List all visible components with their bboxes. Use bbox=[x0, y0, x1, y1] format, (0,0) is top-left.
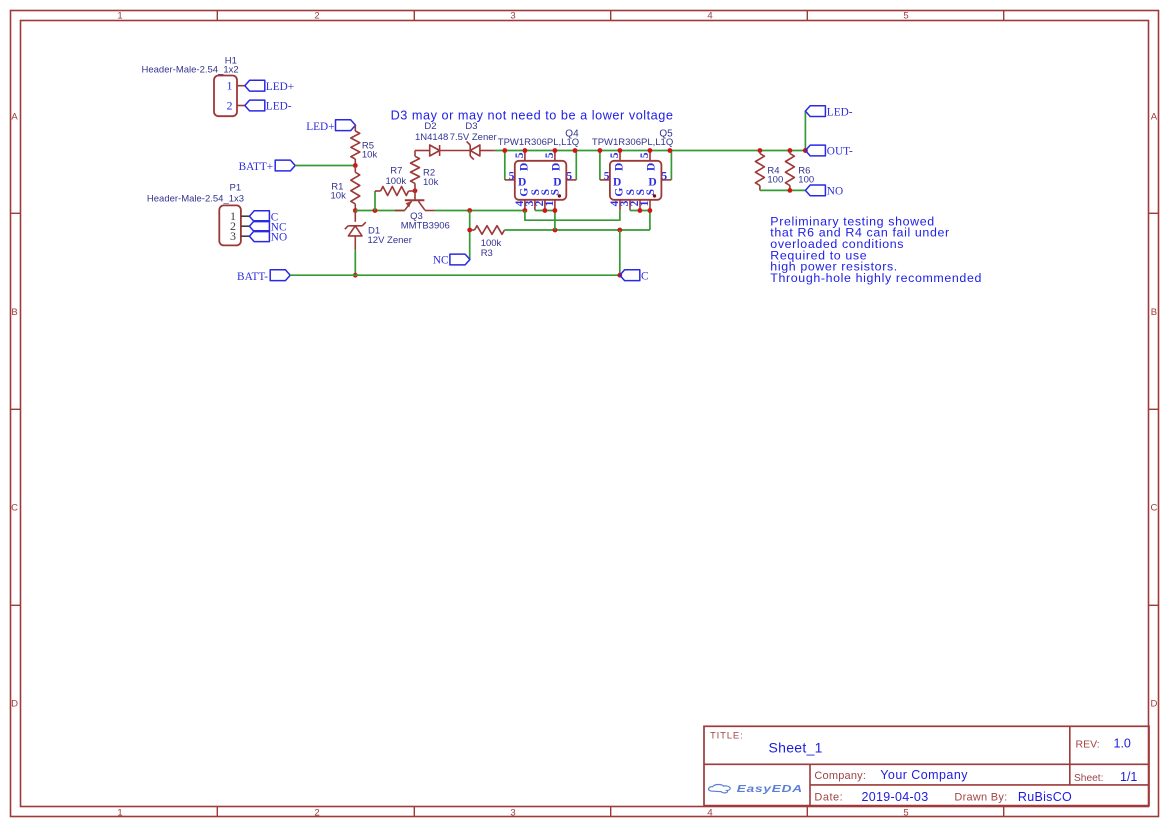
title block bbox=[704, 726, 1149, 805]
svg-text:5: 5 bbox=[661, 171, 667, 183]
net flag NO on P1 pin 3 bbox=[249, 231, 287, 244]
svg-text:5: 5 bbox=[509, 171, 515, 183]
svg-text:Date:: Date: bbox=[814, 792, 843, 804]
svg-text:Q4: Q4 bbox=[565, 128, 579, 139]
MOSFET Q5 TPW1R306PL,L1Q bbox=[592, 128, 673, 210]
resistor R3 100k bbox=[470, 226, 505, 260]
svg-text:1: 1 bbox=[117, 10, 122, 21]
junction Q5 source pin2 bbox=[638, 208, 643, 213]
junction Q5 drain top 2 bbox=[648, 148, 653, 153]
svg-text:5: 5 bbox=[514, 152, 526, 158]
net flag BATT- bbox=[237, 270, 290, 283]
svg-text:2019-04-03: 2019-04-03 bbox=[862, 790, 929, 804]
net flag NO right bbox=[805, 185, 843, 198]
junction Q4 drain top 1 bbox=[523, 148, 528, 153]
svg-text:100: 100 bbox=[767, 175, 783, 186]
svg-text:Sheet_1: Sheet_1 bbox=[769, 740, 823, 756]
connector P1 Header-Male-2.54_1x3 bbox=[147, 183, 244, 246]
svg-text:4: 4 bbox=[707, 807, 712, 818]
pin 2 of P1 bbox=[230, 219, 249, 233]
junction Q5 source pin1 bbox=[648, 208, 653, 213]
svg-text:REV:: REV: bbox=[1076, 738, 1100, 750]
svg-text:R3: R3 bbox=[481, 248, 493, 259]
wire Q4 gate to Q5 gate bbox=[525, 210, 620, 220]
net flag LED+ on H1 pin 1 bbox=[245, 80, 294, 93]
zener diode D3 7.5V bbox=[450, 121, 497, 160]
svg-text:C: C bbox=[11, 503, 18, 514]
wire Q4 source bus bbox=[535, 211, 555, 231]
wire R7 left branch bbox=[374, 191, 376, 211]
wire D1 to BATT- line bbox=[354, 250, 356, 275]
svg-text:D: D bbox=[553, 177, 561, 189]
svg-text:D: D bbox=[11, 698, 18, 709]
svg-text:G: G bbox=[519, 188, 531, 197]
svg-text:Drawn By:: Drawn By: bbox=[954, 792, 1007, 804]
svg-text:G: G bbox=[614, 188, 626, 197]
svg-text:Header-Male-2.54_1x3: Header-Male-2.54_1x3 bbox=[147, 194, 244, 205]
svg-text:D: D bbox=[518, 177, 526, 189]
resistor R7 100k bbox=[375, 166, 415, 196]
svg-text:100: 100 bbox=[798, 175, 814, 186]
net flag C on P1 pin 1 bbox=[249, 211, 278, 224]
svg-text:Q5: Q5 bbox=[659, 128, 673, 139]
wire Q3 to Q4 gate bbox=[435, 210, 525, 212]
svg-text:MMTB3906: MMTB3906 bbox=[401, 221, 450, 232]
junction R6 top bbox=[788, 148, 793, 153]
svg-text:3: 3 bbox=[230, 229, 236, 243]
connector H1 Header-Male-2.54_1x2 bbox=[142, 56, 239, 117]
junction Q4 gate node bbox=[523, 208, 528, 213]
junction D1 on BATT- line bbox=[353, 273, 358, 278]
svg-text:LED+: LED+ bbox=[266, 81, 294, 93]
svg-text:5: 5 bbox=[609, 152, 621, 158]
svg-text:NO: NO bbox=[827, 186, 843, 198]
svg-text:1: 1 bbox=[544, 200, 556, 206]
wire C branch vertical bbox=[619, 230, 621, 275]
wire NC branch vertical bbox=[469, 211, 471, 260]
MOSFET Q4 TPW1R306PL,L1Q bbox=[498, 128, 579, 210]
svg-text:5: 5 bbox=[903, 807, 908, 818]
wire Q5 source bus bbox=[630, 211, 650, 231]
junction Q5 drain pin left bbox=[598, 148, 603, 153]
svg-text:D: D bbox=[614, 163, 626, 171]
resistor R4 100 bbox=[755, 151, 783, 191]
net flag OUT- bbox=[805, 145, 853, 158]
junction BATT+ node bbox=[353, 163, 358, 168]
wire D3 to OUT- (drain line) bbox=[495, 150, 806, 152]
svg-text:3: 3 bbox=[510, 807, 515, 818]
svg-text:100k: 100k bbox=[386, 176, 407, 187]
diode D2 1N4148 bbox=[415, 121, 470, 156]
svg-text:10k: 10k bbox=[423, 177, 439, 188]
resistor R6 100 bbox=[785, 151, 814, 191]
svg-text:EasyEDA: EasyEDA bbox=[737, 783, 803, 795]
junction Q4 drain pin right bbox=[573, 148, 578, 153]
svg-text:Sheet:: Sheet: bbox=[1074, 773, 1103, 784]
svg-text:TITLE:: TITLE: bbox=[710, 730, 744, 741]
zener diode D1 12V bbox=[345, 211, 412, 251]
svg-text:D: D bbox=[1150, 698, 1157, 709]
wire LED- branch bbox=[804, 111, 806, 150]
svg-text:10k: 10k bbox=[331, 190, 347, 201]
net flag NC bbox=[433, 254, 470, 266]
svg-text:Company:: Company: bbox=[814, 770, 866, 782]
resistor R2 10k bbox=[411, 151, 439, 191]
svg-text:LED-: LED- bbox=[827, 106, 853, 118]
junction C branch on R3 line bbox=[617, 228, 622, 233]
pin 2 of H1 bbox=[227, 98, 245, 112]
svg-text:B: B bbox=[11, 307, 17, 318]
pin 1 of P1 bbox=[230, 209, 249, 223]
junction C branch bottom bbox=[617, 273, 622, 278]
svg-text:A: A bbox=[11, 112, 18, 123]
junction R4 top bbox=[758, 148, 763, 153]
junction NC branch node bbox=[467, 208, 472, 213]
svg-text:3: 3 bbox=[510, 10, 515, 21]
svg-text:B: B bbox=[1151, 307, 1157, 318]
svg-text:7.5V Zener: 7.5V Zener bbox=[450, 132, 497, 143]
svg-text:Header-Male-2.54_1x2: Header-Male-2.54_1x2 bbox=[142, 65, 239, 76]
svg-text:1.0: 1.0 bbox=[1114, 737, 1131, 751]
junction Q5 drain top 1 bbox=[618, 148, 623, 153]
svg-text:D: D bbox=[519, 163, 531, 171]
svg-text:10k: 10k bbox=[362, 149, 378, 160]
svg-text:C: C bbox=[641, 271, 649, 283]
svg-text:D: D bbox=[648, 177, 656, 189]
net flag NC on P1 pin 2 bbox=[249, 221, 286, 234]
svg-text:D: D bbox=[646, 163, 658, 171]
svg-text:BATT+: BATT+ bbox=[239, 161, 274, 173]
net flag BATT+ bbox=[239, 160, 296, 173]
svg-text:4: 4 bbox=[707, 10, 712, 21]
note D3 voltage comment bbox=[391, 109, 674, 123]
net flag LED- right bbox=[805, 106, 852, 119]
svg-text:Your Company: Your Company bbox=[880, 768, 968, 782]
svg-text:D: D bbox=[551, 163, 563, 171]
junction Q3 base node bbox=[413, 188, 418, 193]
pin 1 of H1 bbox=[227, 79, 245, 93]
transistor Q3 MMTB3906 PNP bbox=[395, 191, 450, 232]
net flag LED+ above R5 bbox=[306, 120, 355, 133]
svg-text:1: 1 bbox=[117, 807, 122, 818]
svg-text:Through-hole highly recommende: Through-hole highly recommended bbox=[770, 271, 982, 285]
svg-text:5: 5 bbox=[544, 152, 556, 158]
junction Q5 drain pin right bbox=[668, 148, 673, 153]
svg-text:5: 5 bbox=[639, 152, 651, 158]
svg-text:A: A bbox=[1151, 112, 1158, 123]
svg-text:1: 1 bbox=[227, 79, 233, 93]
junction R1 bottom node bbox=[353, 208, 358, 213]
wire R1 node to Q3 bbox=[355, 210, 404, 212]
svg-text:NC: NC bbox=[433, 255, 449, 267]
svg-text:5: 5 bbox=[566, 171, 572, 183]
svg-text:2: 2 bbox=[314, 807, 319, 818]
svg-text:2: 2 bbox=[314, 10, 319, 21]
junction R7 branch node bbox=[373, 208, 378, 213]
junction Q4 source on R3 line bbox=[553, 228, 558, 233]
svg-text:NO: NO bbox=[271, 231, 287, 243]
svg-text:5: 5 bbox=[604, 171, 610, 183]
svg-text:P1: P1 bbox=[230, 183, 242, 194]
wire BATT- line bbox=[290, 274, 620, 276]
svg-text:BATT-: BATT- bbox=[237, 271, 268, 283]
junction Q4 source pin1 bbox=[553, 208, 558, 213]
svg-text:LED-: LED- bbox=[266, 101, 292, 113]
svg-text:1/1: 1/1 bbox=[1120, 770, 1137, 784]
wire LED+ flag to R5 bbox=[354, 125, 356, 131]
svg-text:1N4148: 1N4148 bbox=[415, 132, 448, 143]
svg-text:OUT-: OUT- bbox=[827, 146, 853, 158]
junction R6 bottom bbox=[788, 188, 793, 193]
junction OUT- node bbox=[803, 148, 808, 153]
wire NO line bbox=[760, 189, 806, 191]
net flag C bbox=[620, 270, 649, 283]
svg-text:RuBisCO: RuBisCO bbox=[1018, 790, 1072, 804]
resistor R1 10k bbox=[331, 166, 360, 211]
resistor R5 10k bbox=[351, 131, 378, 166]
net flag LED- on H1 pin 2 bbox=[245, 100, 292, 113]
svg-text:C: C bbox=[1150, 503, 1157, 514]
note reliability comment bbox=[770, 214, 982, 285]
junction Q4 drain top 2 bbox=[553, 148, 558, 153]
svg-text:1: 1 bbox=[639, 200, 651, 206]
svg-text:2: 2 bbox=[227, 98, 233, 112]
wire R3 to Q4/Q5 sources bbox=[505, 229, 650, 231]
svg-text:D3 may or may not need to be a: D3 may or may not need to be a lower vol… bbox=[391, 109, 674, 123]
junction R3 left node bbox=[467, 228, 472, 233]
junction Q4 drain pin left bbox=[502, 148, 507, 153]
svg-text:D: D bbox=[613, 177, 621, 189]
pin 3 of P1 bbox=[230, 229, 249, 243]
svg-text:LED+: LED+ bbox=[306, 121, 334, 133]
svg-text:12V Zener: 12V Zener bbox=[368, 235, 412, 246]
wire BATT+ to R5/R1 node bbox=[295, 165, 355, 167]
junction Q4 source pin2 bbox=[543, 208, 548, 213]
svg-text:5: 5 bbox=[903, 10, 908, 21]
